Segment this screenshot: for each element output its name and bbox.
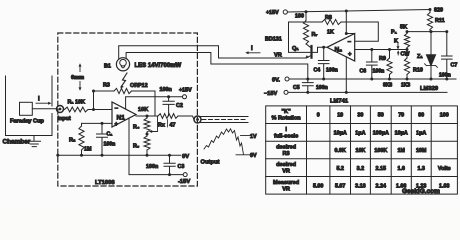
svg-text:3.18: 3.18 (355, 184, 366, 190)
svg-text:10M: 10M (416, 148, 427, 154)
svg-text:10: 10 (337, 113, 343, 119)
svg-text:1M: 1M (84, 147, 92, 153)
reference node wire (407, 31, 447, 33)
svg-text:1V: 1V (250, 134, 257, 140)
svg-text:50: 50 (378, 113, 384, 119)
zener Z1 LM329 (430, 32, 432, 55)
svg-text:C4: C4 (314, 68, 321, 74)
svg-text:"K": "K" (281, 109, 291, 115)
svg-text:Chamber: Chamber (3, 139, 31, 146)
svg-text:5K: 5K (400, 25, 407, 31)
svg-text:Output: Output (201, 160, 220, 166)
svg-text:0V: 0V (182, 154, 189, 160)
op-amp N1 (112, 102, 136, 127)
dashed amplifier box (58, 33, 198, 186)
wiper loop on R4 (10K) (152, 116, 158, 132)
svg-text:100n: 100n (104, 142, 116, 148)
svg-text:C2: C2 (176, 103, 183, 109)
svg-text:1K3: 1K3 (401, 83, 410, 89)
svg-text:100: 100 (440, 113, 449, 119)
svg-text:C5: C5 (293, 85, 300, 91)
output connector (194, 116, 201, 123)
svg-text:100n: 100n (326, 68, 338, 74)
svg-text:820: 820 (434, 8, 443, 14)
ground (28, 136, 41, 147)
svg-text:100K: 100K (374, 148, 387, 154)
svg-text:10K: 10K (138, 107, 148, 113)
svg-text:R₂: R₂ (69, 138, 76, 144)
svg-text:100μA: 100μA (373, 131, 389, 137)
svg-text:5.09: 5.09 (313, 184, 324, 190)
svg-text:N1: N1 (117, 115, 126, 122)
svg-text:B1: B1 (104, 64, 111, 70)
svg-text:P₁: P₁ (391, 30, 398, 36)
svg-text:5.2: 5.2 (336, 166, 344, 172)
R8 leg down to Q1 base node (289, 22, 312, 52)
svg-text:3.2: 3.2 (357, 166, 365, 172)
svg-text:100n: 100n (146, 164, 158, 170)
N2 V+ pin from +15V rail (346, 11, 354, 34)
svg-text:BD131: BD131 (265, 37, 282, 43)
resistor R2 1M (81, 123, 83, 126)
light arrow (lightning) onto ORP12 (121, 73, 127, 87)
svg-text:LM329: LM329 (420, 86, 439, 92)
input connector (BNC) (57, 106, 64, 113)
svg-text:C7: C7 (451, 63, 458, 69)
0V level (236, 154, 250, 156)
svg-text:−: − (348, 40, 352, 46)
N2 V- pin to -15V rail (345, 57, 347, 93)
svg-text:+: + (348, 52, 352, 58)
wire cup to input (32, 108, 57, 110)
svg-text:+15V: +15V (266, 10, 279, 16)
wire up to feedback (93, 91, 95, 110)
svg-text:−15V: −15V (264, 91, 277, 97)
capacitor C2 100n (163, 97, 174, 116)
resistor R10 1K3 (406, 50, 408, 59)
svg-text:R₄: R₄ (133, 125, 140, 131)
6mm spacing arrows (79, 66, 81, 72)
capacitor C1 100n (97, 123, 108, 155)
svg-text:−: − (115, 106, 119, 112)
resistor Rx 47 (158, 114, 178, 119)
svg-text:R3: R3 (103, 83, 110, 89)
svg-text:LM741: LM741 (330, 99, 349, 105)
svg-text:Input: Input (58, 116, 71, 122)
svg-text:R3: R3 (283, 151, 290, 157)
svg-text:47: 47 (170, 123, 176, 129)
non-inverting input wire of N2 (355, 49, 407, 51)
svg-text:Volts: Volts (438, 166, 451, 172)
svg-text:Rx: Rx (158, 123, 165, 129)
svg-text:90: 90 (418, 113, 424, 119)
svg-text:desired: desired (276, 145, 296, 151)
svg-text:C6: C6 (360, 69, 367, 75)
op-amp N2 (mirrored) (327, 34, 355, 62)
svg-text:C₁: C₁ (107, 132, 113, 138)
svg-text:10μA: 10μA (395, 131, 408, 137)
svg-text:0V.: 0V. (272, 78, 280, 84)
svg-text:Z₁: Z₁ (417, 54, 423, 60)
svg-text:1M: 1M (397, 148, 405, 154)
svg-text:full-scale: full-scale (274, 133, 298, 139)
chamber (6, 76, 53, 136)
svg-text:R10: R10 (413, 68, 423, 74)
resistor R5 (146, 132, 148, 136)
svg-text:GeekIG.com: GeekIG.com (402, 188, 440, 195)
svg-text:9K6: 9K6 (383, 83, 392, 89)
svg-text:R₅: R₅ (133, 144, 140, 150)
svg-text:100n: 100n (160, 87, 172, 93)
0V rail inside box (58, 154, 181, 156)
svg-text:0V: 0V (250, 153, 257, 159)
svg-text:R₁ 10K: R₁ 10K (68, 100, 86, 106)
svg-text:5.07: 5.07 (335, 184, 346, 190)
output wire of N1 (136, 115, 158, 117)
svg-text:VR: VR (282, 186, 290, 192)
capacitor C3 100n (168, 173, 171, 176)
svg-text:1K: 1K (327, 30, 334, 36)
svg-text:R₇: R₇ (312, 32, 318, 38)
svg-text:C3: C3 (178, 164, 185, 170)
N1 non-inverting input network (82, 122, 113, 124)
svg-text:10μA: 10μA (334, 131, 347, 137)
svg-text:VR: VR (274, 53, 282, 59)
svg-text:N₂: N₂ (335, 47, 343, 54)
svg-text:ORP12: ORP12 (130, 83, 148, 89)
feedback drop from ORP12 node to output node (154, 91, 156, 116)
svg-text:VR: VR (282, 169, 290, 175)
feedback: N2 inverting input loop (341, 22, 378, 41)
output waveform sketch (204, 129, 244, 155)
svg-text:6mm: 6mm (71, 75, 84, 81)
svg-text:% Rotation: % Rotation (271, 116, 301, 122)
svg-text:+15V: +15V (179, 88, 192, 94)
svg-text:desired: desired (276, 162, 296, 168)
capacitor C6 100n (366, 50, 377, 80)
svg-text:100n: 100n (316, 85, 328, 91)
svg-text:10K: 10K (355, 148, 365, 154)
svg-text:1μA: 1μA (416, 131, 426, 137)
node: R1 out / N1 inverting input (92, 108, 95, 111)
1V level (241, 135, 250, 137)
N2 output to Q1 base (312, 47, 329, 52)
capacitor C4 100n on output node (322, 46, 325, 49)
svg-text:LES 14V/700mW: LES 14V/700mW (135, 63, 182, 69)
resistor R9 9K6 (389, 50, 391, 59)
svg-text:1μA: 1μA (355, 131, 365, 137)
svg-text:100n: 100n (373, 69, 385, 75)
svg-text:Q₁: Q₁ (292, 46, 299, 52)
svg-text:1.6: 1.6 (397, 166, 405, 172)
svg-text:Faraday Cup: Faraday Cup (10, 119, 44, 125)
svg-text:0.9K: 0.9K (335, 148, 346, 154)
svg-text:0: 0 (317, 113, 320, 119)
+15V supply for N1 (126, 97, 183, 109)
svg-text:100n: 100n (439, 73, 451, 79)
svg-text:100: 100 (295, 14, 304, 20)
svg-text:+: + (115, 122, 119, 128)
svg-text:Measured: Measured (273, 180, 300, 186)
svg-text:-15V: -15V (178, 179, 190, 185)
Faraday Cup (20, 102, 33, 115)
svg-text:30: 30 (357, 113, 363, 119)
svg-text:2.24: 2.24 (376, 184, 387, 190)
svg-text:K: K (394, 39, 398, 45)
wire A: lamp to Q1 emitter (VR) (119, 46, 306, 59)
wire B: lamp return to 0V (126, 53, 308, 80)
svg-text:1.3: 1.3 (417, 166, 425, 172)
coax cable (201, 117, 249, 123)
results table (266, 106, 458, 194)
svg-text:2.15: 2.15 (376, 166, 387, 172)
N1 negative supply to -15V (129, 118, 183, 174)
capacitor C5 100n (0V to -15V) (302, 79, 313, 92)
svg-text:70: 70 (398, 113, 404, 119)
svg-text:LT1008: LT1008 (95, 180, 115, 186)
svg-text:R11: R11 (435, 18, 445, 24)
capacitor C7 100n (442, 32, 453, 79)
svg-text:1.03: 1.03 (439, 184, 450, 190)
svg-text:CW: CW (401, 52, 411, 58)
svg-text:R9: R9 (379, 56, 386, 62)
